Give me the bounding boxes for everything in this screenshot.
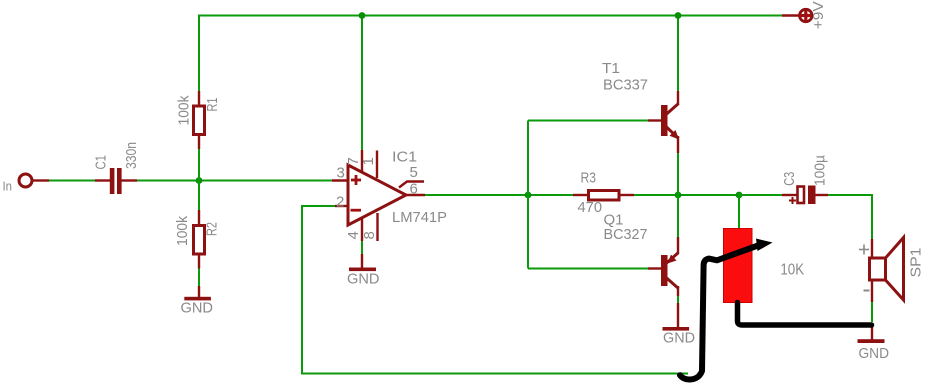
- pin stub R3 right: [620, 194, 634, 196]
- pin stub Q1 base: [648, 267, 661, 269]
- wire speaker bottom green: [871, 301, 873, 322]
- junction pot branch: [736, 192, 743, 199]
- annotation wiper arrow: [680, 246, 758, 380]
- pin stub In terminal: [33, 179, 49, 181]
- wire C1 to node: [136, 180, 199, 182]
- wire R2 bottom to gnd: [198, 268, 200, 287]
- resistor R3: [589, 191, 620, 201]
- ground opamp: [349, 268, 376, 272]
- ground speaker: [858, 339, 885, 343]
- svg-text:4: 4: [345, 231, 362, 239]
- supply +9V: [800, 9, 812, 21]
- transistor Q1: [661, 253, 679, 289]
- wire node to C3: [739, 194, 783, 196]
- svg-text:LM741P: LM741P: [392, 209, 447, 226]
- pin stub opamp pin3: [332, 179, 349, 181]
- resistor R2: [194, 226, 205, 255]
- op-amp minus symbol: [351, 209, 362, 212]
- potentiometer 10K: [724, 229, 753, 303]
- svg-text:GND: GND: [181, 300, 214, 317]
- ground R2: [184, 297, 211, 301]
- op-amp plus symbol: [351, 175, 362, 210]
- wire Q1 emitter rise: [677, 195, 679, 238]
- wire feedback bottom run: [301, 373, 688, 375]
- pin stub C1 right: [121, 179, 137, 181]
- pin stub C1 left: [95, 179, 110, 181]
- pin stub T1 base: [648, 119, 661, 121]
- svg-text:GND: GND: [347, 271, 380, 288]
- svg-text:R2: R2: [204, 222, 221, 236]
- wire T1 emitter drop: [677, 152, 679, 196]
- wire right side down to speaker: [871, 194, 873, 240]
- svg-text:8: 8: [361, 231, 378, 239]
- pin stub Q1 emitter vertical: [677, 237, 679, 253]
- pin stub speaker gnd lead: [871, 326, 873, 340]
- svg-text:10K: 10K: [780, 262, 804, 279]
- svg-text:100k: 100k: [175, 95, 192, 125]
- wire feedback vertical: [301, 205, 303, 374]
- svg-text:BC327: BC327: [604, 226, 648, 243]
- pin stub R1 bottom: [198, 136, 200, 149]
- pin stub opamp pin8: [376, 213, 378, 241]
- pin stub opamp pin6 out: [405, 194, 425, 196]
- svg-text:C1: C1: [93, 155, 110, 170]
- pin stub opamp pin5: [399, 182, 424, 188]
- svg-text:1: 1: [360, 157, 377, 165]
- svg-text:GND: GND: [663, 330, 695, 347]
- pin stub T1 emitter vertical: [677, 136, 679, 153]
- svg-text:100µ: 100µ: [812, 155, 829, 186]
- speaker SP1: [870, 238, 904, 301]
- pin stub R3 left: [573, 194, 588, 196]
- resistor R1: [194, 106, 205, 135]
- wire R2 top: [198, 181, 200, 212]
- svg-text:3: 3: [337, 165, 345, 182]
- svg-text:T1: T1: [602, 60, 620, 77]
- svg-text:+9V: +9V: [810, 1, 827, 29]
- pin stub opamp pin1: [376, 151, 378, 179]
- wire top rail: [198, 15, 783, 17]
- junction top rail T1: [675, 12, 682, 19]
- pin stub R2 bottom: [198, 255, 200, 269]
- pin stub +9V supply: [782, 14, 800, 16]
- annotation pot to speaker wire: [738, 303, 872, 326]
- wire output pin6: [424, 194, 574, 196]
- wire pin2 feedback horizontal: [302, 205, 336, 207]
- capacitor C3: [789, 186, 816, 205]
- wire to T1 base: [528, 120, 649, 122]
- wire pin4 gnd: [361, 240, 363, 255]
- ground Q1: [663, 327, 690, 331]
- svg-text:R1: R1: [204, 98, 221, 112]
- pin stub R2 top: [198, 210, 200, 225]
- pin stub C3 left: [782, 194, 797, 196]
- svg-text:IC1: IC1: [392, 149, 417, 166]
- capacitor C1: [110, 168, 122, 194]
- terminal In: [19, 174, 32, 187]
- svg-text:470: 470: [578, 199, 603, 216]
- svg-text:C3: C3: [781, 172, 798, 186]
- pin stub T1 collector vertical: [677, 91, 679, 105]
- junction emitters node: [675, 192, 682, 199]
- svg-text:GND: GND: [859, 345, 890, 362]
- wire Q1 collector green: [677, 295, 679, 304]
- wire input net: [48, 180, 96, 182]
- wire T1 collector drop: [677, 16, 679, 93]
- pin stub Q1 gnd lead: [677, 303, 679, 327]
- transistor T1: [661, 104, 679, 140]
- wire to Q1 base: [528, 268, 649, 270]
- pin stub speaker bottom: [871, 280, 873, 302]
- pin stub opamp pin2: [335, 205, 349, 207]
- svg-text:330n: 330n: [123, 142, 140, 169]
- pin stub R2 gnd lead: [198, 286, 200, 298]
- svg-text:6: 6: [410, 181, 418, 198]
- op-amp IC1 triangle: [348, 165, 406, 225]
- pin stub R1 top: [198, 91, 200, 105]
- svg-text:2: 2: [336, 194, 344, 211]
- svg-text:5: 5: [410, 164, 418, 181]
- wire R1 bottom: [198, 148, 200, 181]
- svg-text:In: In: [3, 179, 13, 194]
- pin stub C3 right: [815, 194, 828, 196]
- wire pin7 drop: [361, 16, 363, 152]
- svg-text:R3: R3: [581, 170, 597, 187]
- wire node to pin3: [199, 180, 333, 182]
- pin stub opamp gnd lead: [361, 254, 363, 268]
- pin stub opamp pin4: [361, 217, 363, 241]
- wire base branch vertical: [527, 121, 529, 269]
- wire pot top pin: [738, 195, 740, 229]
- svg-text:BC337: BC337: [603, 77, 648, 94]
- wire C3 to corner: [827, 194, 873, 196]
- junction output branch: [525, 192, 532, 199]
- pin stub opamp pin7: [361, 150, 363, 173]
- label speaker plus: [859, 245, 869, 255]
- svg-text:SP1: SP1: [908, 248, 925, 278]
- wire R1 column top: [198, 15, 200, 93]
- junction input node: [196, 177, 203, 184]
- svg-text:100k: 100k: [174, 216, 191, 246]
- junction top rail pin7: [359, 12, 366, 19]
- pin stub speaker top: [871, 239, 873, 258]
- label speaker minus: [864, 290, 870, 292]
- pin stub Q1 collector vertical: [677, 286, 679, 296]
- wire R3 right to emitters node: [633, 194, 739, 196]
